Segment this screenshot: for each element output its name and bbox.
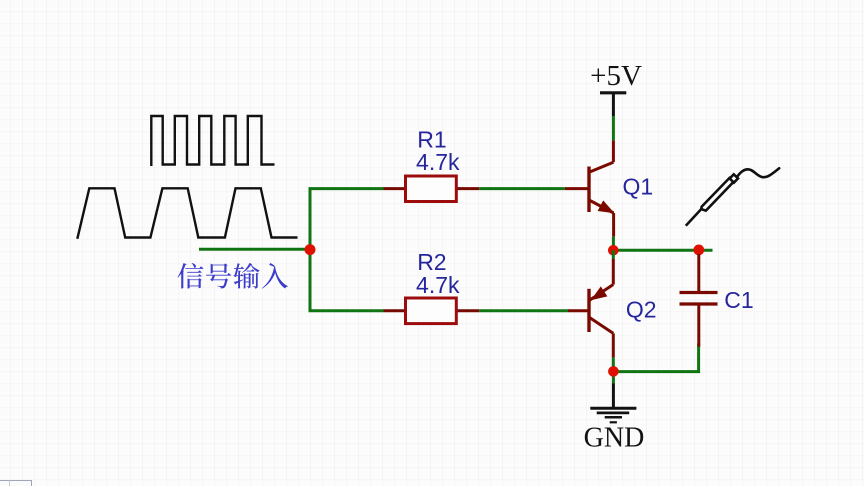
svg-text:+5V: +5V (590, 60, 642, 92)
wire: Q2 collector to ground node (612, 357, 615, 366)
power +5V (590, 60, 642, 116)
junction dot: C1 top node (693, 245, 704, 256)
wire: input node to R2 (310, 250, 384, 311)
tooltip remnant (0, 481, 32, 486)
wire: R1 to Q1 base (479, 187, 565, 190)
svg-text:4.7k: 4.7k (416, 272, 460, 298)
junction dot: ground node (608, 366, 619, 377)
junction dot: input node (305, 244, 316, 255)
svg-text:4.7k: 4.7k (416, 149, 460, 175)
probe (686, 168, 779, 225)
svg-text:Q1: Q1 (622, 174, 653, 200)
resistor R1 (384, 176, 480, 202)
wire: signal input (199, 248, 310, 251)
wire: ground node to ground symbol (612, 377, 615, 385)
wire: Q1 emitter to output node (612, 237, 615, 251)
wire: +5V to Q1 collector (612, 116, 615, 141)
wire: input node to R1 (310, 189, 384, 250)
wire: output node to Q2 emitter (612, 250, 615, 259)
capacitor C1 (680, 254, 718, 347)
trapezoid wave (77, 188, 297, 239)
wire: ground node to C1 bottom (613, 344, 698, 372)
junction dot: output node (608, 245, 619, 256)
svg-text:Q2: Q2 (626, 297, 657, 323)
wire: R2 to Q2 base (479, 309, 568, 312)
svg-text:GND: GND (584, 422, 645, 453)
ground (590, 384, 636, 423)
svg-text:C1: C1 (724, 287, 753, 313)
transistor Q1 (565, 141, 615, 237)
wire: output node to C1 top (613, 249, 712, 252)
transistor Q2 (568, 259, 613, 357)
resistor R2 (384, 298, 480, 324)
square wave (151, 116, 274, 166)
label 信号输入 (177, 263, 288, 289)
